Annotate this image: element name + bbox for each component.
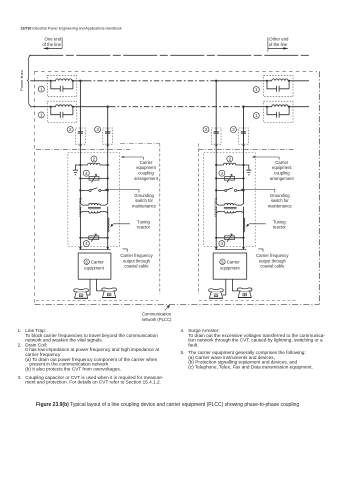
node lower arrester A [79,237,81,239]
coupling capacitor 3 / CVT (right) [239,128,249,146]
surge arrester U2 [89,234,99,242]
label: Grounding switch for maintenance (left) [132,193,157,209]
line trap L1 (top line, left end) [47,75,77,96]
matching transformer T1 secondary [80,211,107,213]
svg-text:equipment: equipment [220,266,240,271]
line trap R1 (top line, right end) [264,75,294,96]
circled 2 drain coil label (right) [227,156,233,162]
inner dashed boundary top [35,70,318,72]
ground (drain coil, left) [73,170,78,175]
wire A' [215,81,217,249]
node drain row A' [215,164,217,166]
circled 3 label [230,127,236,133]
svg-text:of the line: of the line [269,42,288,47]
node arrester row B' [242,177,244,179]
node arrester row A [79,177,81,179]
svg-text:23/730 Industrial Power Engine: 23/730 Industrial Power Engineering and … [21,26,122,30]
wire B' [243,107,245,249]
wire B (from bottom line down) [107,107,109,249]
surge arrester row wire (upper, right) [216,177,243,179]
label: Carrier frequency output through coaxial cable (left) [120,253,153,269]
circled 4 label (lower arrester right) [219,241,225,247]
circled 2 label [203,127,209,133]
svg-text:tion network through the CVT,: tion network through the CVT, caused by … [188,338,323,343]
grounding switch (right) [216,188,243,191]
node lower arrester B [107,237,109,239]
svg-text:Other end: Other end [269,37,289,42]
svg-text:Tuning: Tuning [137,219,150,224]
line trap L2 (bottom line, left end) [47,101,77,122]
svg-text:Grounding: Grounding [134,193,154,198]
matching transformer T2 primary [216,204,243,206]
node: junction top line / wire A [79,80,81,82]
circled 4 label (upper arrester) [83,170,89,176]
transformer core [88,208,101,209]
outer boundary right edge [318,71,320,304]
phone wires (left) [87,279,102,295]
circled 5 + Carrier equipment text [84,259,89,264]
surge arrester U1 [89,174,99,182]
leader tick for Other end label [267,37,269,51]
leader bracket: carrier frequency output (left) [123,249,128,252]
svg-text:Transformer: Transformer [78,198,82,218]
svg-text:equipment: equipment [272,165,292,170]
label: One end of the line [42,37,61,47]
surge arrester row wire (lower, left) [80,237,107,239]
equipment dashed box (left) [68,153,120,247]
line trap R2 (bottom line, right end) [264,101,294,122]
node switch row A [79,189,81,191]
svg-text:Carrier: Carrier [91,260,104,265]
circled 4 label (upper arrester right) [219,170,225,176]
leader arrow: carrier equipment coupling arrangement (right) [253,157,279,160]
svg-text:arrangement: arrangement [134,176,159,181]
circled 5 + Carrier equipment text (right) [220,259,225,264]
surge arrester U4 [225,234,235,242]
node: junction bottom line / wire B [107,106,109,108]
svg-text:of the line: of the line [42,42,61,47]
coupling capacitor 2 (right) [211,128,221,146]
svg-text:3.: 3. [18,375,22,380]
svg-text:reactor: reactor [137,225,151,230]
svg-text:(c) Telephone, Telex, Fax and: (c) Telephone, Telex, Fax and Data trans… [188,364,313,369]
circled 2 drain coil label [91,156,97,162]
equipment dashed box (right) [204,153,256,247]
power line 1 (top phase) [30,80,86,82]
svg-text:equipment: equipment [84,266,104,271]
dash-dot separators at equipment level [36,149,130,151]
leader arrow: tuning reactor (left) [111,224,130,226]
node: junction top line / wire A' [215,80,217,82]
ground stub wire (left) [75,165,80,170]
node switch row B [107,189,109,191]
middle dashed vertical (right cell left edge) [198,144,200,295]
label: Carrier frequency output through coaxial cable (right) [256,253,289,269]
svg-text:coaxial cable: coaxial cable [260,264,285,269]
svg-text:2.: 2. [18,342,22,347]
power line 2 (bottom phase) [30,106,110,108]
label: Tuning reactor (right) [273,219,287,229]
matching transformer T1 primary [80,204,107,206]
svg-text:Carrier: Carrier [275,160,288,165]
node lower arrester A' [215,237,217,239]
power lines brace [27,55,31,106]
coax output line with arrows (left) [79,248,110,250]
inner dashed boundary bottom segments [36,299,296,301]
inner dashed boundary left [34,71,36,304]
wire A (from top line down to coax arrow) [79,81,81,249]
telephone icon left-1 [74,289,89,299]
svg-text:maintenance: maintenance [132,203,157,208]
node arrester row A' [215,177,217,179]
label: Other end of the line [269,37,289,47]
surge arrester row wire (lower, right) [216,237,243,239]
drain coil 2 (right) [223,163,235,165]
grounding switch (left) [80,188,107,191]
circled 1 for trap L2 [38,112,44,118]
surge arrester row wire (upper, left) [80,177,107,179]
middle dashed vertical (left cell right edge) [159,144,161,295]
svg-text:switch for: switch for [135,198,153,203]
phone wires (right) [222,279,237,295]
node drain row B [107,164,109,166]
carrier equipment box (right) [213,253,247,279]
circled 4 label (lower arrester) [83,241,89,247]
svg-text:One end: One end [45,37,62,42]
svg-text:output through: output through [123,258,151,263]
ground (drain coil, right) [246,170,251,175]
svg-text:Communication: Communication [142,311,172,316]
transformer core (right) [224,208,237,209]
arrow pointing right (other end) [268,47,288,49]
leader bracket: carrier frequency output (right) [258,249,263,252]
label: Communication network (PLCC) [142,311,172,322]
svg-text:Grounding: Grounding [270,193,290,198]
svg-text:reactor: reactor [273,225,287,230]
svg-text:coupling: coupling [138,171,154,176]
surge arrester U3 [225,174,235,182]
drain coil row wire [80,164,107,166]
circled 2 label [67,127,73,133]
svg-text:5.: 5. [181,350,185,355]
svg-text:arrangement: arrangement [270,176,295,181]
telephone icon right-1 [209,289,224,299]
carrier equipment box (left) [78,253,111,279]
svg-text:ment and protection. For detai: ment and protection. For details on CVT … [25,380,161,385]
leader tick for One end label [61,38,63,49]
svg-text:Carrier: Carrier [227,260,240,265]
svg-text:(b) It also protects the CVT f: (b) It also protects the CVT from overvo… [25,366,121,371]
label: Tuning reactor (left) [137,219,151,229]
circled 1 for trap R1 [253,87,259,93]
svg-text:fault.: fault. [188,342,198,347]
outer boundary bottom edge [35,303,320,305]
node switch row B' [242,189,244,191]
circled 1 for trap L1 [38,86,44,92]
svg-text:Carrier frequency: Carrier frequency [256,253,289,258]
leader arrow: grounding switch (left) [106,189,139,192]
svg-text:Figure 23.9(b) Typical layout: Figure 23.9(b) Typical layout of a line … [36,402,299,408]
svg-text:Carrier: Carrier [140,160,153,165]
telephone icon right-2 [237,288,252,298]
coupling capacitor 2 (left) [76,128,86,146]
matching transformer T2 secondary [216,211,243,213]
leader arrow: carrier equipment coupling arrangement (left) [122,157,143,160]
svg-text:1.: 1. [18,328,22,333]
svg-text:Transformer: Transformer [214,198,218,218]
svg-text:coupling: coupling [274,171,290,176]
svg-text:network (PLCC): network (PLCC) [142,317,172,322]
outer boundary top edge [29,54,309,56]
label: Grounding switch for maintenance (right) [268,193,293,209]
leader arrow: tuning reactor (right) [247,224,266,226]
svg-text:equipment: equipment [136,165,156,170]
svg-text:output through: output through [259,258,287,263]
node drain row A [79,164,81,166]
svg-text:Power lines: Power lines [19,70,24,91]
svg-text:Carrier frequency: Carrier frequency [120,253,153,258]
leader arrow: grounding switch (right) [242,189,275,192]
tuning reactor coil (right) [244,218,245,232]
coupling capacitor 3 / CVT (left) [103,128,113,146]
label: Carrier equipment coupling arrangement (right) [270,160,295,181]
label: Carrier equipment coupling arrangement (left) [134,160,159,181]
node arrester row B [107,177,109,179]
ground stub wire (right, mirrored) [244,165,249,170]
svg-text:maintenance: maintenance [268,203,293,208]
node drain row B' [242,164,244,166]
svg-text:coaxial cable: coaxial cable [124,264,149,269]
node lower arrester B' [242,237,244,239]
circled 3 label [95,127,101,133]
node: junction bottom line / wire B' [242,106,244,108]
arrow pointing left (one end) [44,47,62,49]
svg-text:4.: 4. [181,328,185,333]
node switch row A' [215,189,217,191]
leader arrow: communication network [165,307,169,311]
drain coil 2 (inductor) [88,163,100,165]
telephone icon left-2 [102,288,117,298]
drain coil row wire (right) [216,164,243,166]
coax output line with arrows (right) [215,248,246,250]
circled 1 for trap R2 [253,113,259,119]
svg-text:switch for: switch for [271,198,289,203]
tuning reactor coil (left) [108,218,109,232]
svg-text:Tuning: Tuning [273,219,286,224]
